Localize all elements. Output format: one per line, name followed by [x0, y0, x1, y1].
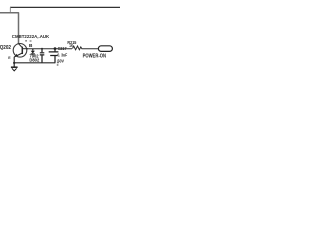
diode D cathode bar: [31, 53, 35, 55]
wire collector feed from left edge: [0, 13, 19, 44]
capacitor C2 top lead: [41, 49, 43, 53]
wire jog left: [9, 7, 11, 12]
connector pill POWER-ON: [98, 46, 112, 52]
capacitor C2 plates: [40, 53, 45, 55]
capacitor C217 top lead: [54, 49, 56, 52]
svg-text:0. 3uF: 0. 3uF: [57, 52, 67, 57]
capacitor C217 bottom lead: [54, 56, 56, 63]
ground symbol stem: [13, 63, 15, 67]
svg-text:POWER-ON: POWER-ON: [83, 54, 107, 60]
svg-text:D802: D802: [29, 57, 39, 62]
capacitor C2 bottom lead: [41, 55, 43, 62]
svg-text:Q202: Q202: [0, 45, 11, 51]
svg-text:C217: C217: [58, 46, 67, 51]
wire base net: [27, 48, 72, 50]
speck marks right of bus end: [57, 62, 59, 64]
transistor Q202 base stub to wire: [22, 48, 28, 50]
capacitor C217 plates: [49, 52, 59, 56]
speck marks: [25, 40, 27, 42]
ground bus: [14, 62, 55, 64]
transistor Q202 collector lead: [19, 44, 23, 48]
junction dot emitter-bus: [13, 62, 15, 64]
ground symbol triangle: [12, 68, 17, 71]
svg-text:CMBT2222A,.AUK: CMBT2222A,.AUK: [12, 34, 50, 40]
wire top rail: [10, 6, 120, 8]
transistor Q202 body circle: [13, 44, 27, 58]
diode D triangle: [31, 51, 35, 54]
capacitor C217 junction dot: [54, 47, 57, 50]
ground symbol bar: [11, 66, 18, 68]
wire to connector: [82, 48, 99, 50]
capacitor C2 junction dot: [41, 48, 43, 50]
transistor Q202 emitter lead: [14, 53, 22, 63]
transistor Q202 base bar: [21, 47, 23, 54]
transistor Q202 emitter arrow: [15, 54, 18, 57]
resistor R215 zigzag: [73, 46, 82, 50]
diode D stem: [32, 49, 34, 51]
